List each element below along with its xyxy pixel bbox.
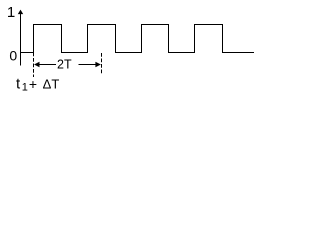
svg-text:Δ: Δ	[43, 76, 52, 91]
axis label 1	[7, 4, 15, 21]
svg-text:T: T	[51, 76, 59, 91]
y-axis	[18, 10, 23, 66]
svg-text:t: t	[16, 75, 21, 92]
svg-text:1: 1	[7, 4, 15, 21]
dashed marker at first rising edge	[33, 53, 35, 78]
square waveform	[21, 25, 255, 53]
dimension arrow right segment	[79, 62, 101, 68]
svg-text:+: +	[29, 76, 37, 92]
svg-text:1: 1	[22, 82, 28, 94]
label t1 + deltaT	[16, 75, 59, 93]
svg-text:2T: 2T	[57, 58, 72, 72]
svg-text:0: 0	[9, 48, 17, 64]
dimension arrow left segment	[34, 62, 56, 68]
dashed marker at 2T	[101, 53, 103, 74]
